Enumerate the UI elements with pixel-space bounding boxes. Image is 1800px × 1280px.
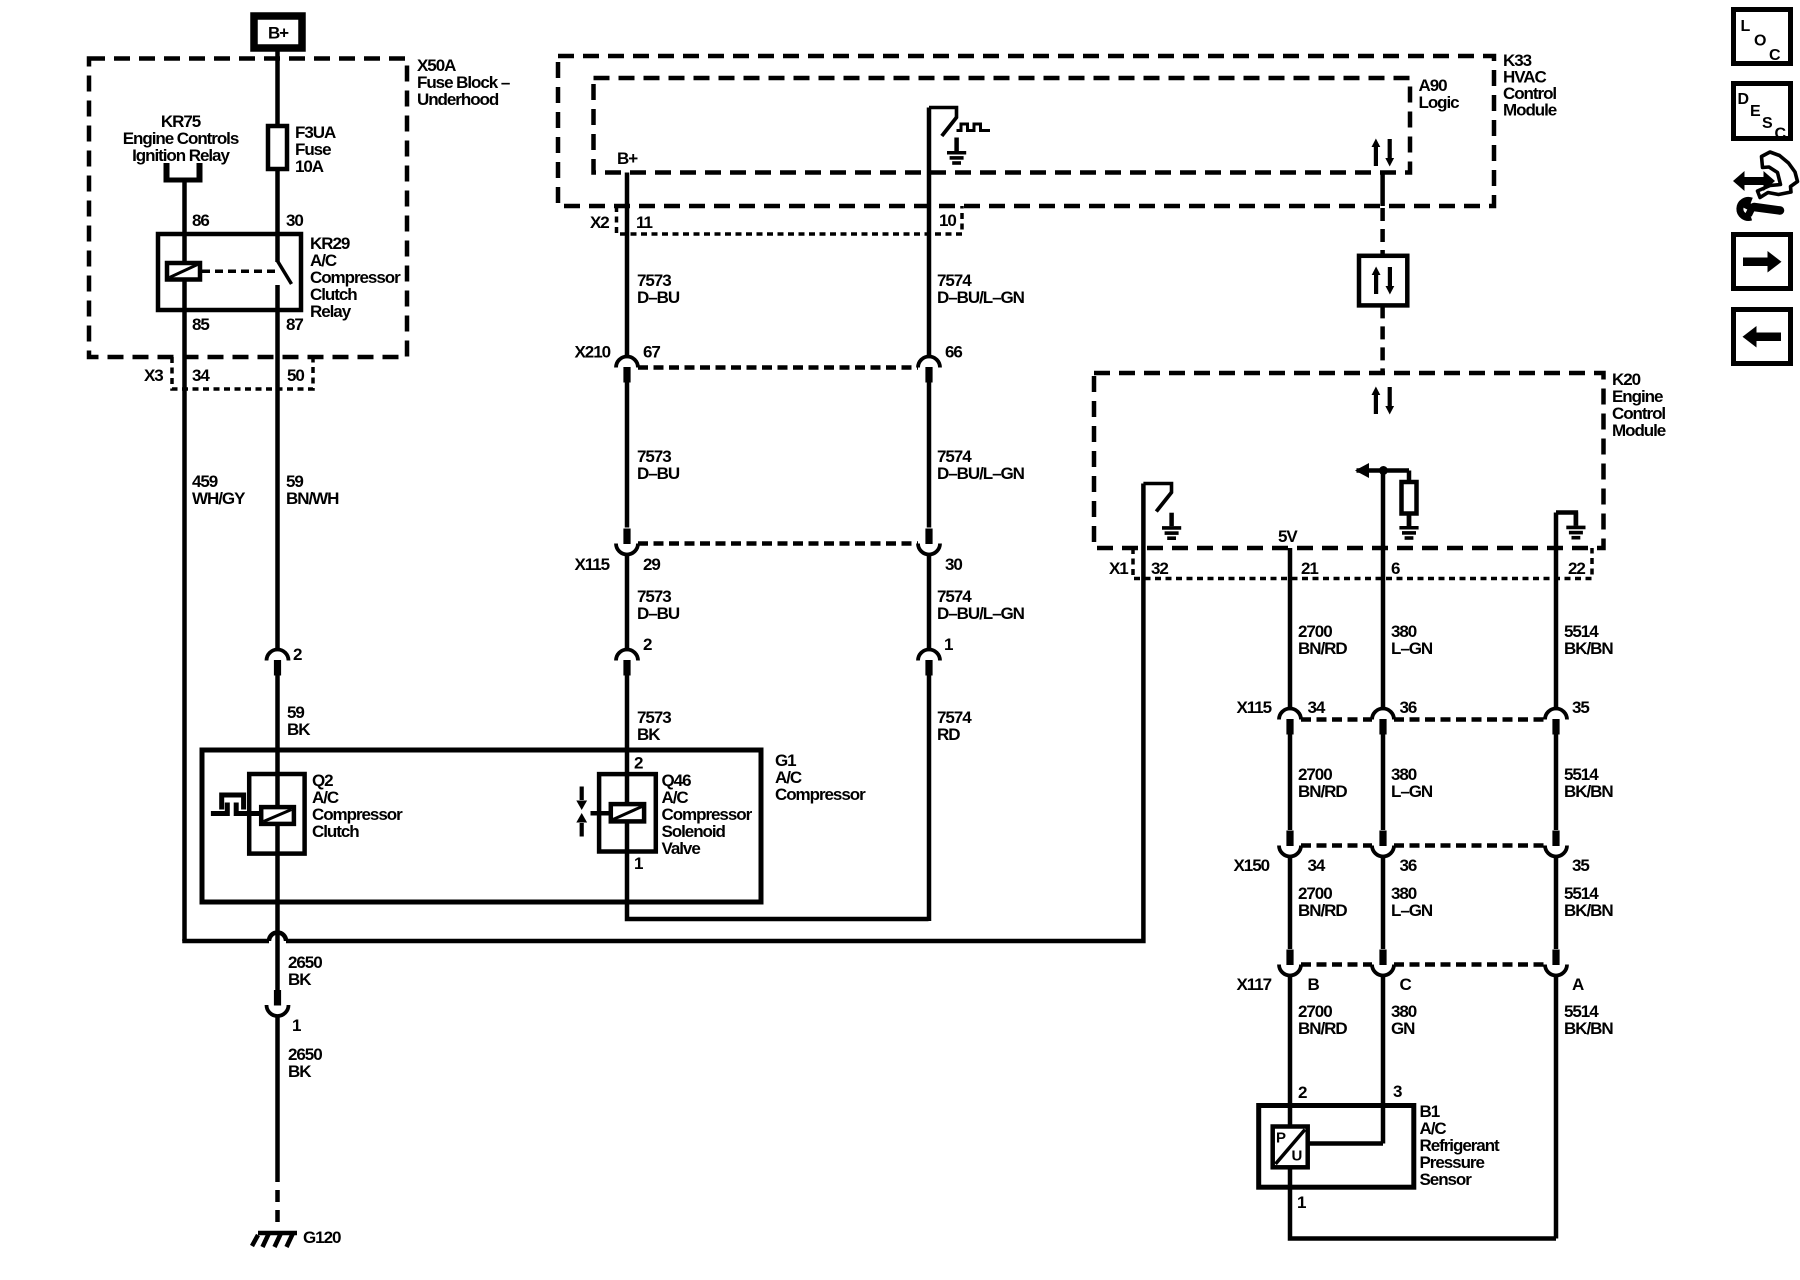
svg-text:Module: Module — [1503, 101, 1557, 120]
connector X115 pin 29 — [616, 529, 638, 555]
compressor assembly G1 box — [202, 750, 761, 902]
wire 7573 BK: connector to Q46 pin 2 — [625, 675, 630, 804]
svg-text:D–BU/L–GN: D–BU/L–GN — [937, 464, 1025, 483]
pin 35 label (X150) — [1572, 856, 1589, 875]
svg-text:BK/BN: BK/BN — [1564, 901, 1613, 920]
label 380 L-GN (set A) — [1391, 622, 1433, 658]
svg-text:3: 3 — [1393, 1082, 1402, 1101]
label X150 — [1234, 856, 1270, 875]
svg-text:G120: G120 — [303, 1228, 341, 1247]
wire: B+ to fuse F3UA — [275, 51, 280, 126]
connector row X210 dashed line — [638, 365, 918, 370]
sensor element P/U — [1273, 1127, 1308, 1168]
svg-text:P: P — [1276, 1130, 1286, 1147]
svg-text:X210: X210 — [575, 343, 611, 362]
pin 86 — [192, 211, 209, 230]
svg-text:2: 2 — [634, 754, 643, 773]
svg-text:11: 11 — [636, 213, 652, 232]
data link wire: connector to ECM K20 — [1380, 305, 1385, 372]
svg-text:34: 34 — [1308, 856, 1326, 875]
wire 59 BN/WH: X3-50 down to inline connector 2 — [275, 389, 280, 649]
clutch Q2 coil — [261, 807, 294, 824]
pin 2 label (7573) — [643, 635, 652, 654]
pin 36 label — [1400, 698, 1417, 717]
svg-text:L–GN: L–GN — [1391, 639, 1433, 658]
connector X210 pin 66 — [918, 357, 940, 383]
icon back arrow button — [1734, 310, 1791, 364]
svg-text:Relay: Relay — [310, 302, 352, 321]
pin 34 label (X150) — [1308, 856, 1326, 875]
relay KR29 actuating dashed link — [202, 270, 276, 274]
svg-text:2: 2 — [293, 645, 302, 664]
svg-text:L–GN: L–GN — [1391, 901, 1433, 920]
icon DESC button — [1734, 84, 1791, 143]
wire 5514 BK/BN: X150 to X117 — [1554, 857, 1559, 949]
svg-text:1: 1 — [292, 1016, 301, 1035]
logic block A90 dashed box — [594, 78, 1411, 173]
label 2700 BN/RD (set B) — [1298, 765, 1347, 801]
svg-text:D–BU: D–BU — [637, 288, 680, 307]
label 7573 D-BU (upper) — [637, 271, 680, 307]
svg-text:X3: X3 — [144, 366, 163, 385]
pin 2 (Q46) — [634, 754, 643, 773]
label K20 Engine Control Module — [1612, 370, 1666, 440]
svg-text:WH/GY: WH/GY — [192, 489, 246, 508]
svg-text:36: 36 — [1400, 856, 1417, 875]
svg-text:BN/WH: BN/WH — [286, 489, 339, 508]
svg-text:86: 86 — [192, 211, 209, 230]
wire 59 BK: connector 2 to clutch coil Q2 — [275, 675, 280, 807]
label X210 — [575, 343, 611, 362]
pin C label — [1400, 975, 1412, 994]
wire: Q46 pin 1 down and right to 7574 RD — [627, 821, 929, 919]
label 380 GN (set D) — [1391, 1002, 1417, 1038]
svg-text:BK: BK — [637, 725, 661, 744]
label KR29 A/C Compressor Clutch Relay — [310, 234, 401, 321]
svg-text:BK: BK — [288, 1062, 312, 1081]
svg-text:X1: X1 — [1109, 559, 1128, 578]
svg-text:21: 21 — [1301, 559, 1318, 578]
engine control module K20 dashed box — [1094, 373, 1604, 548]
pin 6 (X1) — [1391, 559, 1400, 578]
connector X115 pin 35 — [1545, 709, 1567, 735]
wire 7573 D-BU: X115 to inline connector 2 — [625, 555, 630, 649]
wire 2700 BN/RD: X115 to X150 — [1288, 734, 1293, 830]
wire 7573 D-BU: X210 to X115 — [625, 383, 630, 528]
label 5514 BK/BN (set B) — [1564, 765, 1613, 801]
svg-text:Ignition Relay: Ignition Relay — [132, 146, 230, 165]
label 2700 BN/RD (set C) — [1298, 884, 1347, 920]
pin 36 label (X150) — [1400, 856, 1417, 875]
connector X115 pin 30 — [918, 529, 940, 555]
svg-text:Compressor: Compressor — [775, 785, 866, 804]
wire 7574: ground switch out of A90 to X210 — [927, 108, 932, 358]
connector X1 — [1133, 548, 1592, 579]
clutch Q2 mechanical plates symbol — [211, 795, 261, 814]
label 2700 BN/RD (set D) — [1298, 1002, 1347, 1038]
pin 35 label — [1572, 698, 1589, 717]
label 7573 BK — [637, 708, 671, 744]
label B1 A/C Refrigerant Pressure Sensor — [1420, 1102, 1501, 1189]
label F3UA Fuse 10A — [295, 123, 336, 176]
svg-text:2: 2 — [643, 635, 652, 654]
svg-text:BN/RD: BN/RD — [1298, 1019, 1347, 1038]
label X2 — [590, 213, 609, 232]
connector X150 pin 34 — [1279, 831, 1301, 857]
pin 30 — [286, 211, 303, 230]
svg-text:BN/RD: BN/RD — [1298, 901, 1347, 920]
ground symbol inside A90 — [947, 138, 966, 164]
pin 1 (Q46) — [634, 854, 643, 873]
label X115 (right) — [1237, 698, 1272, 717]
wire 380 L-GN: X115 to X150 — [1381, 734, 1386, 830]
svg-text:30: 30 — [286, 211, 303, 230]
wire: relay pin 85 down — [182, 310, 187, 389]
pin 85 — [192, 315, 209, 334]
svg-text:L: L — [1741, 18, 1751, 35]
label X117 — [1237, 975, 1272, 994]
solenoid valve Q46 body — [599, 774, 656, 851]
relay KR29 body — [158, 234, 301, 310]
svg-text:36: 36 — [1400, 698, 1417, 717]
svg-text:66: 66 — [945, 343, 962, 362]
svg-text:BN/RD: BN/RD — [1298, 782, 1347, 801]
wire 7574 D-BU/L-GN: X210 to X115 — [927, 383, 932, 528]
label 459 WH/GY — [192, 472, 246, 508]
label KR75 Engine Controls Ignition Relay — [123, 112, 239, 165]
resistor lead to ground — [1407, 514, 1412, 527]
svg-text:BN/RD: BN/RD — [1298, 639, 1347, 658]
pin 11 (X2) — [636, 213, 652, 232]
svg-text:B+: B+ — [268, 24, 289, 43]
svg-text:50: 50 — [287, 366, 304, 385]
svg-text:34: 34 — [1308, 698, 1326, 717]
svg-text:RD: RD — [937, 725, 960, 744]
wire: Q2 coil down through G1 box — [275, 824, 280, 991]
pin 1 label (inline connector) — [292, 1016, 301, 1035]
svg-text:35: 35 — [1572, 856, 1589, 875]
label G1 A/C Compressor — [775, 751, 866, 804]
fuse F3UA — [268, 126, 287, 169]
label X115 (left) — [575, 555, 610, 574]
svg-text:1: 1 — [944, 635, 953, 654]
pin 29 label — [643, 555, 660, 574]
label 7574 RD — [937, 708, 972, 744]
svg-text:U: U — [1292, 1148, 1302, 1165]
svg-text:29: 29 — [643, 555, 660, 574]
svg-text:A: A — [1572, 975, 1584, 994]
wire 7573: B+ out of A90 to X210 — [625, 173, 630, 358]
pin 32 (X1) — [1151, 559, 1168, 578]
connector row X115 (left) dashed line — [638, 541, 918, 546]
svg-text:32: 32 — [1151, 559, 1168, 578]
svg-text:85: 85 — [192, 315, 209, 334]
svg-text:D–BU/L–GN: D–BU/L–GN — [937, 604, 1025, 623]
svg-text:B+: B+ — [617, 149, 638, 168]
connector X3 — [172, 357, 313, 389]
pin 66 label — [945, 343, 962, 362]
wire 5514 BK/BN: X115 to X150 — [1554, 734, 1559, 830]
svg-text:35: 35 — [1572, 698, 1589, 717]
label 2650 BK (lower) — [288, 1045, 322, 1081]
svg-text:X115: X115 — [575, 555, 610, 574]
icon LOC button — [1734, 10, 1791, 65]
svg-text:10A: 10A — [295, 157, 324, 176]
pin 2 label (inline connector) — [293, 645, 302, 664]
ground symbol below resistor — [1399, 513, 1418, 539]
wire: sensor pin 3 internal link — [1308, 1141, 1383, 1146]
svg-text:D: D — [1738, 91, 1749, 108]
data link arrows in connector box — [1372, 267, 1395, 295]
svg-text:BK: BK — [287, 720, 311, 739]
solenoid valve Q46 coil — [591, 804, 645, 821]
label 7573 D-BU (middle) — [637, 447, 680, 483]
label A90 Logic — [1419, 76, 1460, 112]
label 7574 D-BU/L-GN (upper) — [937, 271, 1025, 307]
svg-text:87: 87 — [286, 315, 303, 334]
label X1 — [1109, 559, 1128, 578]
label Q46 A/C Compressor Solenoid Valve — [662, 771, 753, 858]
wire 5514 BK/BN: ground leg through X1-22 to X115 — [1554, 513, 1559, 710]
connector row X117 dashed line — [1301, 962, 1545, 967]
node B+ inside A90 — [617, 149, 638, 168]
wire 380 L-GN: pull-up junction through X1-6 to X115 — [1381, 471, 1386, 710]
svg-text:C: C — [1400, 975, 1412, 994]
label 380 L-GN (set C) — [1391, 884, 1433, 920]
svg-text:30: 30 — [945, 555, 962, 574]
svg-text:D–BU: D–BU — [637, 464, 680, 483]
pull-up junction and resistor at pin 6 — [1355, 463, 1409, 482]
label 5514 BK/BN (set A) — [1564, 622, 1613, 658]
svg-text:67: 67 — [643, 343, 660, 362]
svg-text:L–GN: L–GN — [1391, 782, 1433, 801]
pin 34 label — [1308, 698, 1326, 717]
relay KR29 switch contact — [278, 234, 292, 310]
clutch Q2 body — [249, 774, 304, 854]
svg-text:1: 1 — [1297, 1193, 1306, 1212]
relay KR75 stub bracket — [164, 163, 203, 180]
label 2650 BK (upper) — [288, 953, 322, 989]
connector X117 pin A — [1545, 950, 1567, 976]
inline connector pin 2 (7573) — [616, 650, 638, 676]
inline connector pin 1 (7574) — [918, 650, 940, 676]
label K33 HVAC Control Module — [1503, 51, 1557, 120]
label 5514 BK/BN (set C) — [1564, 884, 1613, 920]
wire: fuse F3UA to relay pin 30 — [275, 169, 280, 234]
wire: relay pin 87 down — [275, 310, 280, 389]
svg-text:D–BU: D–BU — [637, 604, 680, 623]
svg-text:22: 22 — [1568, 559, 1585, 578]
wire 7574 RD: connector down to Q46 return — [927, 675, 932, 921]
fuse block X50A dashed box — [89, 59, 407, 358]
connector X117 pin C — [1372, 950, 1394, 976]
connector X2 — [617, 206, 963, 234]
inline connector 2 (59 circuit) — [267, 650, 289, 676]
label 7573 D-BU (lower) — [637, 587, 680, 623]
label X50A Fuse Block Underhood — [417, 56, 510, 109]
ground symbol at pin 32 — [1162, 513, 1181, 539]
svg-text:BK: BK — [288, 970, 312, 989]
icon diagnostic tool (arrows and wrench) — [1733, 152, 1798, 217]
label G120 — [303, 1228, 341, 1247]
ground G120 chassis symbol — [252, 1232, 297, 1247]
label X3 — [144, 366, 163, 385]
pin 30 label — [945, 555, 962, 574]
pin A label — [1572, 975, 1584, 994]
svg-text:D–BU/L–GN: D–BU/L–GN — [937, 288, 1025, 307]
HVAC control module K33 dashed box — [558, 56, 1494, 206]
label 7574 D-BU/L-GN (middle) — [937, 447, 1025, 483]
wire 2700 BN/RD: X117 to sensor pin 2 — [1288, 976, 1293, 1127]
connector X150 pin 36 — [1372, 831, 1394, 857]
relay KR29 coil — [167, 234, 200, 310]
connector X210 pin 67 — [616, 357, 638, 383]
5V supply label — [1278, 527, 1298, 546]
wire 380 L-GN: X150 to X117 — [1381, 857, 1386, 949]
svg-text:X117: X117 — [1237, 975, 1272, 994]
label 59 BN/WH — [286, 472, 339, 508]
ground switch inside K20 at pin 32 — [1143, 484, 1171, 512]
connector row X150 dashed line — [1301, 843, 1545, 848]
data link wire: A90 to data link connector — [1380, 173, 1385, 256]
svg-text:Underhood: Underhood — [417, 90, 499, 109]
svg-text:1: 1 — [634, 854, 643, 873]
svg-text:6: 6 — [1391, 559, 1400, 578]
solid state ground switch inside A90 — [929, 108, 990, 137]
wire hop: 2650 BK crossing 459 WH/GY — [269, 933, 286, 942]
pin 50 (X3) — [287, 366, 304, 385]
label 2700 BN/RD (set A) — [1298, 622, 1347, 658]
svg-text:C: C — [1775, 126, 1787, 143]
svg-text:Clutch: Clutch — [312, 822, 359, 841]
pin 10 (X2) — [939, 211, 956, 230]
connector X150 pin 35 — [1545, 831, 1567, 857]
data link connector box — [1359, 256, 1407, 306]
icon forward arrow button — [1734, 235, 1791, 289]
svg-text:E: E — [1750, 103, 1761, 120]
wire 2700 BN/RD: X1-21 to X115 — [1288, 548, 1293, 709]
wire 7574 D-BU/L-GN: X115 to inline connector 1 — [927, 555, 932, 649]
svg-text:5V: 5V — [1278, 527, 1298, 546]
pin B label — [1308, 975, 1320, 994]
svg-text:X115: X115 — [1237, 698, 1272, 717]
connector X117 pin B — [1279, 950, 1301, 976]
pin 87 — [286, 315, 303, 334]
svg-text:B: B — [1308, 975, 1320, 994]
svg-text:BK/BN: BK/BN — [1564, 1019, 1613, 1038]
connector row X115 (right) dashed line — [1301, 717, 1545, 722]
pin 22 (X1) — [1568, 559, 1585, 578]
svg-text:Logic: Logic — [1419, 93, 1460, 112]
pin 67 label — [643, 343, 660, 362]
svg-text:Module: Module — [1612, 421, 1666, 440]
svg-text:X2: X2 — [590, 213, 609, 232]
solenoid valve Q46 valve arrows — [576, 787, 587, 837]
wire: sensor pin 1 return to 5514 BK/BN — [1290, 1167, 1556, 1238]
pin 21 (X1) — [1301, 559, 1318, 578]
connector X115 pin 36 — [1372, 709, 1394, 735]
svg-text:X150: X150 — [1234, 856, 1270, 875]
label Q2 A/C Compressor Clutch — [312, 771, 403, 841]
pin 3 (B1) — [1393, 1082, 1402, 1101]
svg-text:BK/BN: BK/BN — [1564, 782, 1613, 801]
wire 459 WH/GY: X3-34 down to horizontal run — [182, 389, 187, 941]
svg-text:O: O — [1754, 33, 1766, 50]
pin 2 (B1) — [1298, 1083, 1307, 1102]
svg-text:Sensor: Sensor — [1420, 1170, 1473, 1189]
wire 2650 BK to ground — [275, 1016, 280, 1228]
svg-text:GN: GN — [1391, 1019, 1415, 1038]
svg-text:C: C — [1769, 47, 1781, 64]
pin 1 (B1) — [1297, 1193, 1306, 1212]
inline connector 1 (2650 circuit) — [267, 990, 289, 1016]
svg-text:10: 10 — [939, 211, 956, 230]
wire 5514 BK/BN: X117 down to sensor return — [1554, 976, 1559, 1239]
svg-text:34: 34 — [192, 366, 210, 385]
ground symbol at pin 22 — [1566, 512, 1585, 538]
connector X115 pin 34 — [1279, 709, 1301, 735]
label 7574 D-BU/L-GN (lower) — [937, 587, 1025, 623]
wire 2700 BN/RD: X150 to X117 — [1288, 857, 1293, 949]
power feed B+ battery terminal — [254, 16, 302, 48]
data link arrows inside A90 — [1372, 139, 1395, 167]
label 5514 BK/BN (set D) — [1564, 1002, 1613, 1038]
label 59 BK — [287, 703, 311, 739]
svg-text:S: S — [1762, 115, 1773, 132]
label 380 L-GN (set B) — [1391, 765, 1433, 801]
svg-text:Valve: Valve — [662, 839, 701, 858]
pin 34 (X3) — [192, 366, 210, 385]
data link arrows inside K20 — [1372, 387, 1395, 415]
svg-text:BK/BN: BK/BN — [1564, 639, 1613, 658]
pin 1 label (7574) — [944, 635, 953, 654]
svg-text:2: 2 — [1298, 1083, 1307, 1102]
pressure sensor B1 body — [1259, 1106, 1414, 1188]
wire 459 WH/GY horizontal run to ECM pin 32 — [185, 484, 1144, 942]
wire 380 GN: X117 to sensor pin 3 — [1381, 976, 1386, 1144]
wire: KR75 stub to relay coil pin 86 — [182, 182, 187, 234]
ground leg at pin 22 — [1556, 513, 1576, 526]
resistor inside K20 — [1402, 482, 1417, 514]
